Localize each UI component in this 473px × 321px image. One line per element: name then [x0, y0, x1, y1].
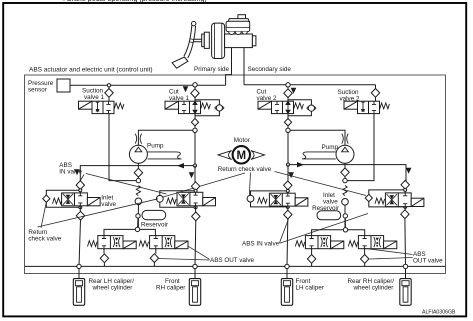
pump 2 suction filter: [344, 163, 346, 178]
reservoir (left): [142, 210, 166, 219]
brake booster: [202, 23, 225, 58]
node rear LH wheel: [77, 264, 81, 268]
front LH caliper: [281, 279, 292, 306]
pump 1: [129, 145, 147, 163]
junction on secondary line at wheel column: [286, 163, 289, 166]
svg-text:ABS actuator and electric unit: ABS actuator and electric unit (control …: [29, 67, 153, 74]
pump 2: [336, 145, 354, 163]
ABS IN valve L1: filter below: [79, 206, 81, 211]
flow arrow down to ABS IN valve R1: [288, 172, 294, 178]
cut valve 2 bypass check ball: [308, 105, 314, 111]
svg-text:IN valve: IN valve: [59, 168, 82, 175]
wire: wheel lines bottom rail: [25, 265, 446, 267]
leader: right ABS IN valve label to R2: [280, 214, 369, 244]
pump 2 cam arcs: [342, 134, 348, 144]
wire: R1 to front LH wheel line: [286, 219, 289, 266]
ABS OUT valve 2: [139, 236, 188, 249]
ABS OUT valve 3 filter below: [311, 249, 313, 267]
svg-text:Reservoir: Reservoir: [312, 205, 339, 212]
ABS IN valve R2 body: [385, 193, 424, 207]
cut valve 2 bypass loop: [288, 100, 311, 116]
node front LH wheel: [285, 264, 289, 268]
wire: secondary line down to IN valve R1: [287, 165, 289, 182]
ABS IN valve L2 bypass loop: [160, 191, 196, 207]
filter above suction valve 1: [108, 87, 110, 101]
filter below cut valve 1: [194, 114, 196, 128]
ABS IN valve R2: filter below: [404, 207, 406, 211]
wire: ABS OUT valves return line (left): [104, 229, 155, 235]
svg-text:wheel cylinder: wheel cylinder: [353, 284, 394, 291]
cut valve 2: [258, 101, 303, 113]
svg-text:Return check valve: Return check valve: [218, 166, 272, 173]
node below pump 1 filter: [136, 178, 140, 182]
filter above cut valve 2: [287, 87, 289, 101]
master cylinder reservoir tank: [226, 15, 250, 32]
pump 1 cam arcs: [135, 134, 141, 144]
motor shaft left: [218, 151, 232, 160]
ABS OUT valve 4: [348, 236, 397, 249]
node below cut valve 2: [286, 128, 290, 132]
svg-text:valve 1: valve 1: [84, 94, 104, 101]
motor shaft right: [251, 151, 265, 160]
svg-text:ABS OUT valve: ABS OUT valve: [210, 257, 254, 264]
svg-text:RH caliper: RH caliper: [156, 284, 185, 291]
junction on primary line at wheel column: [193, 164, 196, 167]
wire: secondary supply line: [244, 84, 376, 86]
flow arrow down to ABS IN valve R2: [406, 168, 412, 174]
pump 2 drive fork: [302, 152, 336, 159]
brake pedal: [172, 21, 196, 68]
svg-text:ABS IN valve: ABS IN valve: [242, 240, 280, 247]
leader: center label to R1 check ball: [249, 173, 250, 197]
R2 loop junctions: [404, 188, 407, 191]
node front RH wheel: [193, 264, 197, 268]
front RH caliper: [189, 279, 200, 306]
return check valve ball (left): [135, 198, 142, 205]
node below pump 2 filter: [343, 178, 347, 182]
svg-text:Secondary side: Secondary side: [248, 66, 292, 73]
return check valve spring (right): [343, 186, 347, 196]
R2 spring: [375, 198, 385, 204]
wire: to rear LH caliper: [78, 269, 80, 279]
wire: L2 to front RH wheel line: [194, 221, 197, 267]
return check valve ball (right): [342, 199, 349, 206]
L1 spring: [53, 198, 63, 204]
node on return line (left): [135, 227, 139, 231]
ABS IN valve R2 bypass loop: [369, 190, 405, 207]
R2 return check valve (diamond): [365, 194, 372, 201]
R1 return check ball: [247, 195, 254, 202]
filter above suction valve 2: [375, 85, 377, 101]
wire: suction valve 1 outlet to pump 1 suction: [109, 114, 136, 181]
rear RH caliper / wheel cylinder: [400, 279, 411, 306]
leader: right ABS OUT label to valve 4 solenoid: [364, 248, 413, 254]
leader: left ABS OUT label to valve 2 filter: [158, 259, 210, 261]
ABS IN valve R1 body: [269, 193, 308, 206]
reservoir (right): [317, 211, 341, 220]
wire: primary output from master cylinder: [226, 48, 232, 86]
flow arrow down to ABS IN valve L2: [189, 172, 195, 178]
wire: ball to reservoir node (left): [137, 205, 139, 228]
ABS IN valve R1 bypass loop: [251, 191, 288, 207]
L2 return check ball: [156, 195, 163, 202]
cut valve 1 bypass check ball: [216, 105, 222, 111]
svg-text:Reservoir: Reservoir: [141, 221, 168, 228]
svg-text:OUT valve: OUT valve: [413, 258, 443, 265]
leader: right ABS IN valve label to R1: [280, 220, 289, 243]
pump 1 suction filter: [137, 163, 139, 178]
node at suction valve 1 tap: [107, 84, 110, 87]
wire: ABS OUT valves return line (right): [312, 230, 365, 236]
reservoir node (left): [136, 214, 140, 218]
leader: right ABS OUT label to valve 4 filter: [370, 258, 413, 260]
cut valve 1: [165, 101, 210, 113]
ABS IN valve L1 body: [62, 193, 101, 206]
leader: bottom left label to left check ball: [38, 199, 159, 227]
suction valve 1: [79, 101, 124, 113]
wire: to front RH caliper: [194, 269, 196, 279]
wire: to rear RH caliper: [405, 269, 407, 279]
R1 spring: [258, 198, 268, 204]
rear LH caliper / wheel cylinder: [73, 279, 84, 306]
svg-text:LH caliper: LH caliper: [296, 284, 324, 291]
brake booster push rod: [194, 39, 202, 42]
motor: [233, 146, 250, 163]
L2 loop junctions: [194, 189, 197, 192]
ABS OUT valve 1 filter below: [103, 249, 105, 267]
ABS IN valve L2: filter above: [194, 182, 196, 193]
wire: suction valve 2 outlet to pump 2 suction: [347, 114, 374, 181]
leader: bottom left label to L1 check diamond: [41, 204, 46, 228]
node below cut valve 1: [193, 128, 197, 132]
filter above cut valve 1: [194, 87, 196, 101]
ABS IN valve R1: filter below: [287, 206, 289, 211]
ABS IN valve L2 body: [177, 192, 216, 206]
wire: ball to reservoir node (right): [344, 205, 346, 228]
wire: L1 to rear LH wheel line: [79, 220, 81, 266]
svg-text:sensor: sensor: [28, 86, 47, 93]
ABS unit box (control unit boundary): [25, 75, 446, 274]
L1 loop junctions: [79, 189, 82, 192]
node on return line (right): [343, 228, 347, 232]
svg-text:Pump: Pump: [322, 144, 339, 151]
R1 loop junctions: [286, 189, 289, 192]
reservoir port scallops: [229, 32, 248, 35]
svg-text:Primary side: Primary side: [194, 66, 229, 73]
master cylinder body: [225, 34, 256, 48]
filter below cut valve 2: [287, 114, 289, 128]
leader: center label to R2 loop check valve: [275, 172, 367, 196]
flow arrow down into cut valve 1: [183, 86, 189, 92]
wire: secondary output from master cylinder: [243, 48, 245, 85]
ABS OUT valve 2 filter below: [154, 249, 155, 267]
wire: reservoir to ABS OUT line (right): [344, 218, 346, 230]
svg-text:Motor: Motor: [234, 137, 250, 144]
leader: center label to L2 check ball: [162, 173, 246, 198]
suction valve 2: [344, 101, 389, 113]
L2 spring: [167, 198, 177, 204]
ABS IN valve L2: filter below: [195, 206, 197, 212]
cut valve 1 bypass loop: [195, 100, 219, 116]
svg-text:ALFIA0306GB: ALFIA0306GB: [422, 310, 456, 316]
svg-text:valve: valve: [101, 201, 116, 208]
ABS IN valve L1 bypass loop: [46, 190, 80, 207]
wire: to front LH caliper: [286, 269, 288, 279]
node at cut valve 1 tap: [193, 83, 197, 87]
wire: primary supply line: [70, 84, 226, 86]
ABS IN valve R1: filter above: [287, 182, 289, 194]
svg-text:check valve: check valve: [28, 236, 61, 243]
pressure sensor: [57, 79, 70, 92]
svg-text:Pump: Pump: [147, 143, 164, 150]
flow arrow right on secondary line: [297, 162, 304, 167]
flow arrow left on primary line: [177, 163, 184, 168]
ABS IN valve R2: filter above: [404, 178, 407, 193]
leader: left ABS OUT label to valve 2 solenoid: [188, 246, 210, 259]
leader: left ABS IN valve label to L2: [86, 174, 167, 195]
ABS OUT valve 1: [88, 236, 137, 249]
wire: primary pressure distribution line: [80, 133, 195, 178]
ABS OUT valve 3: [295, 236, 344, 249]
svg-text:wheel cylinder: wheel cylinder: [92, 284, 133, 291]
wire: R2 to rear RH wheel line: [404, 219, 407, 267]
wire: pump 1 outlet to cut valve 1 node: [138, 130, 192, 145]
reservoir node (right): [343, 214, 347, 218]
wire: pump 2 outlet to cut valve 2 node: [290, 130, 345, 145]
svg-text:M: M: [237, 150, 247, 162]
node at cut valve 2 tap: [286, 83, 290, 87]
return check valve spring (left): [136, 186, 140, 196]
flow arrow down into cut valve 2: [291, 88, 297, 94]
flow arrow down to ABS IN valve L1: [74, 169, 80, 175]
leader: left ABS IN valve label to L1: [78, 175, 84, 185]
node rear RH wheel: [403, 264, 407, 268]
L1 return check valve (diamond): [43, 195, 50, 202]
ABS IN valve L1: filter above: [79, 177, 81, 193]
wire: reservoir to ABS OUT line (left): [137, 218, 140, 229]
pump 1 drive fork: [148, 152, 182, 159]
wire: secondary pressure distribution line: [288, 133, 406, 178]
ABS OUT valve 4 filter below: [364, 249, 366, 267]
wire: primary line down to IN valve L2: [194, 166, 196, 182]
